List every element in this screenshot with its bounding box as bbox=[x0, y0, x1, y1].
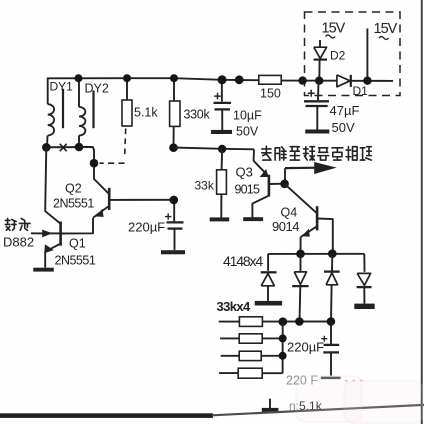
faint dashes artifact bbox=[345, 379, 367, 382]
ground diode #1 bbox=[255, 301, 282, 306]
diode D4 (4148 #2) bbox=[300, 254, 302, 272]
svg-text:Q3: Q3 bbox=[236, 165, 253, 180]
wire arrow tip to Q1 bar bbox=[50, 232, 60, 234]
inductor DY2 bbox=[78, 78, 80, 108]
svg-text:4148x4: 4148x4 bbox=[223, 253, 263, 269]
inductor DY1 core bar bbox=[62, 89, 64, 128]
watermark pink blob right bbox=[344, 381, 423, 423]
source 15V second tilde bbox=[379, 37, 389, 40]
svg-text:15V: 15V bbox=[374, 21, 398, 37]
transistor Q3 bar bbox=[268, 175, 271, 197]
scan bottom line right bbox=[212, 405, 424, 415]
junction dot 33k top bbox=[218, 145, 226, 153]
wire ladder vertical bbox=[282, 322, 284, 374]
wire corner down to Q3 bbox=[253, 149, 255, 161]
diode D3 (4148 #1) bbox=[261, 271, 277, 273]
svg-text:50V: 50V bbox=[236, 125, 259, 139]
resistor 33k #2 bbox=[220, 337, 239, 339]
junction dot DY1 top bbox=[75, 74, 83, 82]
resistor 33k bbox=[221, 149, 224, 170]
junction dot top bus extra bbox=[235, 75, 244, 84]
junction dot bus Q4 emitter bbox=[296, 250, 305, 259]
transistor Q3 base wire bbox=[269, 183, 285, 185]
ground 10uF bbox=[211, 130, 232, 134]
transistor Q4 collector wire bbox=[317, 219, 333, 254]
junction dot coil bottom left bbox=[42, 143, 51, 152]
ground Q1 bbox=[33, 268, 54, 272]
ground 47uF bbox=[305, 130, 329, 134]
label 去输出级偏置电路 bbox=[262, 146, 271, 160]
wire Q1 collector rail bbox=[45, 147, 60, 223]
annotation text 改为 bbox=[5, 218, 16, 230]
transistor Q2 bar bbox=[108, 188, 111, 210]
wire lower bus bbox=[262, 321, 331, 323]
svg-text:33k: 33k bbox=[195, 179, 215, 193]
transistor Q4 emitter arrow bbox=[302, 229, 309, 236]
junction dot ladder R2 bbox=[279, 334, 287, 342]
svg-text:2N5551: 2N5551 bbox=[55, 254, 96, 268]
capacitor 10uF plates bbox=[214, 102, 232, 104]
diode D2 bbox=[319, 40, 321, 47]
junction dot box left bbox=[298, 76, 306, 84]
svg-text:D1: D1 bbox=[353, 84, 369, 98]
svg-text:150: 150 bbox=[260, 87, 281, 101]
capacitor 220uF mid plus bbox=[165, 213, 171, 219]
wire 15V#2 lead bbox=[366, 29, 368, 81]
ground Q3 bbox=[243, 217, 263, 221]
junction dot bus Q4 collector bbox=[328, 249, 337, 258]
svg-text:2N5551: 2N5551 bbox=[53, 197, 94, 211]
wire top bus right of 150 resistor bbox=[281, 80, 337, 82]
capacitor 220uF bottom bbox=[330, 322, 332, 345]
junction dot 47uF top bbox=[315, 77, 323, 85]
capacitor 10uF leads bbox=[221, 80, 223, 102]
resistor 33k #1 bbox=[219, 321, 240, 323]
svg-text:220µF: 220µF bbox=[128, 220, 165, 235]
capacitor 47uF bbox=[317, 81, 320, 101]
transistor Q2 emitter arrow bbox=[96, 209, 103, 216]
svg-text:33kx4: 33kx4 bbox=[217, 299, 252, 314]
capacitor 47uF plus bbox=[308, 90, 315, 97]
wire diode row bus bbox=[268, 253, 364, 255]
svg-text:15V: 15V bbox=[322, 21, 346, 37]
svg-text:Q2: Q2 bbox=[65, 182, 82, 196]
transistor Q3 emitter bbox=[254, 161, 269, 176]
transistor Q1 emitter bbox=[45, 244, 60, 252]
wire 330k bottom to node bbox=[173, 126, 175, 147]
transistor Q4 emitter bbox=[301, 226, 317, 237]
svg-text:D2: D2 bbox=[330, 49, 346, 63]
junction dot Q2 node bbox=[90, 159, 99, 168]
arrow to output bias bbox=[285, 167, 318, 170]
resistor 150 bbox=[259, 75, 281, 84]
svg-text:Q4: Q4 bbox=[281, 206, 298, 220]
watermark pink blob left bbox=[296, 376, 362, 422]
junction dot Q2-cap node bbox=[170, 196, 179, 205]
svg-text:50V: 50V bbox=[332, 120, 355, 135]
svg-text:Q1: Q1 bbox=[69, 237, 86, 251]
diode D1 bbox=[337, 75, 350, 87]
svg-text:D882: D882 bbox=[3, 235, 34, 250]
capacitor faint second cap plate bbox=[321, 377, 341, 380]
ground 220uF mid bbox=[161, 250, 185, 254]
svg-text:10µF: 10µF bbox=[233, 109, 262, 123]
wire Q3 node to Q4 bbox=[285, 184, 317, 213]
scan bottom bar left bbox=[0, 413, 213, 418]
diode D6 (4148 #4) bbox=[357, 273, 370, 285]
resistor 5.1k bbox=[126, 78, 128, 100]
transistor Q2 base wire to cap node bbox=[109, 199, 173, 201]
resistor 33k #4 bbox=[219, 372, 238, 374]
wire Q3 node up bbox=[284, 168, 286, 184]
wire bus left stub bbox=[267, 254, 269, 271]
junction dot lower bus right bbox=[327, 317, 336, 326]
svg-text:5.1k: 5.1k bbox=[134, 106, 158, 120]
ground 33k bbox=[210, 217, 230, 221]
svg-text:DY1: DY1 bbox=[50, 80, 74, 94]
transistor Q1 bar bbox=[59, 222, 62, 246]
junction dot Q3 output node bbox=[280, 180, 289, 189]
svg-text:DY2: DY2 bbox=[85, 82, 109, 96]
wire DY2 bottom to Q2 base node bbox=[79, 147, 94, 163]
wire Q4 emitter down bbox=[300, 237, 302, 254]
capacitor 10uF plus bbox=[214, 93, 221, 100]
resistor 330k bbox=[173, 78, 175, 101]
junction dot ladder R3 bbox=[279, 352, 287, 360]
wire coil bottom link bbox=[46, 146, 79, 148]
dashed enclosure box bbox=[305, 12, 401, 96]
ground diode #4 bbox=[354, 304, 374, 309]
junction dot coil bottom right bbox=[75, 143, 84, 152]
wire top bus right of D1 bbox=[351, 80, 393, 82]
capacitor 220uF bottom plus bbox=[321, 336, 327, 342]
X cut mark on coil bottom wire bbox=[60, 144, 67, 151]
capacitor 220uF mid bbox=[173, 200, 175, 222]
junction dot lower bus mid bbox=[295, 317, 304, 326]
inductor DY2 core bar bbox=[92, 91, 94, 129]
dashed wire 5.1k to Q2 base node bbox=[125, 129, 126, 159]
transistor Q1 emitter arrow bbox=[45, 245, 53, 253]
junction dot lower bus left bbox=[279, 317, 288, 326]
transistor Q2 collector wire bbox=[94, 163, 109, 194]
annotation arrow to Q1 base bbox=[31, 232, 44, 234]
svg-text:330k: 330k bbox=[184, 108, 211, 122]
transistor Q4 bar bbox=[316, 206, 319, 230]
wire node row y148 bbox=[174, 148, 255, 150]
junction dot 10uF top bbox=[218, 75, 227, 84]
ground bottom 5.1k bbox=[269, 399, 271, 408]
transistor Q3 collector bbox=[252, 196, 268, 218]
source 15V first tilde bbox=[326, 35, 336, 38]
wire bus right stub bbox=[363, 254, 365, 272]
wire top supply bus left section bbox=[48, 78, 259, 80]
svg-text:47µF: 47µF bbox=[330, 103, 360, 118]
wire 33k bottom bbox=[220, 194, 222, 217]
junction dot 5.1k top bbox=[123, 74, 131, 82]
diode D5 (4148 #3) bbox=[331, 254, 333, 272]
svg-text:220µF: 220µF bbox=[287, 340, 324, 355]
inductor DY1 bbox=[47, 78, 49, 105]
wire Q2 emitter down bbox=[61, 218, 93, 234]
svg-text:9015: 9015 bbox=[235, 183, 260, 197]
transistor Q3 emitter arrow bbox=[260, 170, 268, 177]
transistor Q2 emitter bbox=[93, 206, 109, 218]
junction dot 330k top bbox=[170, 74, 178, 82]
wire Q1 emitter down bbox=[44, 252, 46, 268]
scan border right edge bbox=[421, 0, 423, 424]
junction dot D1 cathode node bbox=[363, 77, 371, 85]
svg-text:9014: 9014 bbox=[272, 219, 299, 234]
junction dot 330k bottom node bbox=[169, 143, 178, 152]
resistor 33k #3 bbox=[221, 355, 240, 357]
